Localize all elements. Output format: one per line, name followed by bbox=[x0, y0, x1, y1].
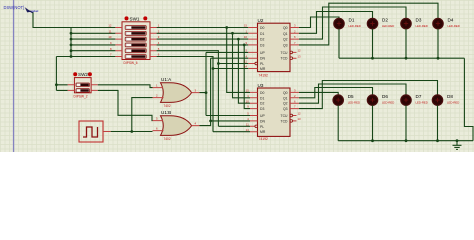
dip switch SW2 bbox=[73, 72, 92, 98]
svg-text:LED-RED: LED-RED bbox=[349, 24, 361, 28]
wire U2.Q0 to LED D1 bbox=[299, 17, 339, 28]
wire SW1 row2 data D1 bbox=[157, 33, 250, 98]
svg-text:D6: D6 bbox=[382, 94, 388, 99]
node DSW(NOT) label bbox=[4, 5, 26, 10]
svg-text:PL: PL bbox=[260, 125, 264, 129]
U2 TCU TCD bubbles bbox=[290, 51, 293, 54]
svg-text:D2: D2 bbox=[260, 38, 264, 42]
svg-text:DN: DN bbox=[260, 119, 265, 123]
svg-text:11: 11 bbox=[244, 60, 247, 64]
svg-text:Q0: Q0 bbox=[283, 26, 288, 30]
svg-text:D2: D2 bbox=[260, 102, 264, 106]
wire U3.Q1 to LED D6 bbox=[299, 88, 373, 98]
svg-text:TCU: TCU bbox=[281, 51, 289, 55]
pulse generator source bbox=[79, 121, 111, 142]
SW1 pins left bbox=[115, 28, 122, 57]
wire U2.Q3 to LED D4 bbox=[299, 3, 438, 45]
svg-text:7402: 7402 bbox=[164, 104, 171, 108]
svg-text:LED-RED: LED-RED bbox=[348, 101, 360, 105]
U2 pins left bbox=[248, 28, 257, 69]
svg-text:DSW(NOT): DSW(NOT) bbox=[4, 5, 26, 10]
ground bbox=[453, 141, 462, 150]
wire U2.Q1 to LED D2 bbox=[299, 12, 373, 34]
svg-text:U1:B: U1:B bbox=[161, 110, 171, 115]
counter U2 bbox=[258, 18, 291, 78]
svg-text:7402: 7402 bbox=[164, 137, 171, 141]
svg-text:Q1: Q1 bbox=[283, 96, 288, 100]
background grid bbox=[0, 0, 474, 152]
svg-text:DIPSW_2: DIPSW_2 bbox=[74, 95, 88, 99]
svg-text:LED-RED: LED-RED bbox=[447, 101, 459, 105]
led D2 bbox=[367, 17, 394, 28]
svg-text:Q2: Q2 bbox=[283, 38, 288, 42]
svg-text:U2: U2 bbox=[258, 18, 264, 23]
dip switch SW1 bbox=[122, 16, 150, 65]
svg-text:D1: D1 bbox=[349, 17, 355, 22]
svg-text:LED-RED: LED-RED bbox=[416, 24, 428, 28]
U3 pins left bbox=[250, 92, 258, 131]
junction dots on rail bbox=[55, 32, 72, 86]
led D8 bbox=[432, 94, 459, 105]
counter U3 bbox=[258, 83, 291, 141]
wire SW1 row1 data D0 bbox=[157, 28, 250, 93]
svg-text:MR: MR bbox=[260, 67, 266, 71]
led D1 bbox=[334, 17, 361, 28]
svg-text:D3: D3 bbox=[416, 17, 422, 22]
U3 TCU TCD bubbles bbox=[290, 114, 293, 117]
svg-text:D7: D7 bbox=[416, 94, 422, 99]
svg-text:LED-RED: LED-RED bbox=[382, 101, 394, 105]
svg-text:D3: D3 bbox=[260, 43, 264, 47]
sheet border line bbox=[13, 0, 14, 152]
wire SW1 row6 to MR pins bbox=[157, 57, 250, 132]
led D7 bbox=[401, 94, 428, 105]
svg-text:Q0: Q0 bbox=[283, 91, 288, 95]
svg-text:14: 14 bbox=[244, 65, 248, 69]
junction pulse node bbox=[130, 130, 133, 133]
wire SW1 row3 data D2 bbox=[157, 39, 250, 103]
U3 PL bubble bbox=[255, 125, 258, 128]
svg-text:Q2: Q2 bbox=[283, 102, 288, 106]
svg-text:LED-RED: LED-RED bbox=[382, 24, 394, 28]
svg-text:D4: D4 bbox=[448, 17, 454, 22]
svg-text:13: 13 bbox=[298, 54, 302, 58]
junctions bottom rail bbox=[371, 139, 458, 142]
wire rail from terminal bbox=[33, 13, 115, 91]
svg-text:D0: D0 bbox=[260, 91, 264, 95]
terminal marker arrow bbox=[25, 7, 39, 13]
U2 pin numbers bbox=[244, 24, 301, 69]
svg-text:10: 10 bbox=[108, 35, 112, 39]
svg-text:U3: U3 bbox=[258, 83, 264, 88]
svg-text:11: 11 bbox=[246, 122, 249, 126]
svg-text:15: 15 bbox=[246, 89, 250, 93]
wire U1:A output to U2.UP and U3.UP bbox=[200, 52, 251, 115]
svg-text:D3: D3 bbox=[260, 107, 264, 111]
SW2 pins bbox=[68, 85, 98, 91]
wire pulse to U1:B input2 and U1:A input2 bbox=[111, 98, 153, 132]
svg-text:LED-RED: LED-RED bbox=[416, 101, 428, 105]
svg-text:D0: D0 bbox=[260, 26, 264, 30]
wire SW2 pin2 to U1:B input1 bbox=[98, 90, 153, 120]
svg-text:TCD: TCD bbox=[281, 119, 289, 123]
wire U1:B output to U2.DN and U3.DN bbox=[200, 58, 251, 125]
SW1 pin numbers bbox=[108, 24, 159, 57]
svg-text:D8: D8 bbox=[447, 94, 453, 99]
U2 PL bubble bbox=[255, 62, 258, 65]
wire U3.Q2 to LED D7 bbox=[299, 84, 406, 103]
SW1 pins right bbox=[150, 28, 157, 57]
led D6 bbox=[367, 94, 394, 105]
svg-text:10: 10 bbox=[244, 35, 248, 39]
svg-text:TCD: TCD bbox=[281, 57, 289, 61]
svg-text:LED-RED: LED-RED bbox=[448, 24, 460, 28]
svg-text:14: 14 bbox=[246, 128, 250, 132]
wire SW1 row4 data D3 bbox=[157, 45, 250, 109]
SW2 sliders bbox=[76, 83, 89, 92]
junction PL bbox=[217, 62, 220, 65]
junction A out bbox=[205, 91, 208, 94]
svg-text:Q1: Q1 bbox=[283, 32, 288, 36]
junction B out bbox=[209, 120, 212, 123]
svg-text:D1: D1 bbox=[260, 32, 264, 36]
svg-text:DN: DN bbox=[260, 57, 265, 61]
svg-text:10: 10 bbox=[246, 99, 250, 103]
svg-text:SW1: SW1 bbox=[130, 16, 140, 21]
U3 pin numbers bbox=[246, 89, 301, 132]
wire U3.Q0 to LED D5 bbox=[299, 92, 338, 95]
svg-text:12: 12 bbox=[108, 24, 112, 28]
wire SW2 pin1 to U1:A input1 bbox=[98, 85, 153, 88]
svg-text:UP: UP bbox=[260, 114, 265, 118]
wire SW1 row5 to PL pins bbox=[157, 51, 250, 127]
svg-text:PL: PL bbox=[260, 62, 264, 66]
svg-text:74192: 74192 bbox=[259, 137, 269, 141]
U3 pins right bbox=[290, 92, 299, 121]
svg-text:12: 12 bbox=[298, 112, 302, 116]
svg-text:UP: UP bbox=[260, 51, 265, 55]
or-gate U1:B bbox=[153, 110, 200, 141]
svg-text:D2: D2 bbox=[382, 17, 388, 22]
or-gate U1:A bbox=[153, 77, 200, 108]
wire top LED cathodes to collector bbox=[339, 29, 473, 141]
svg-text:13: 13 bbox=[298, 117, 302, 121]
svg-text:U1:A: U1:A bbox=[161, 77, 172, 82]
U2 pins right bbox=[290, 28, 299, 59]
svg-text:11: 11 bbox=[109, 29, 112, 33]
SW1 sliders bbox=[125, 26, 146, 59]
svg-text:Q3: Q3 bbox=[283, 43, 288, 47]
svg-text:12: 12 bbox=[298, 49, 302, 53]
svg-text:DIPSW_6: DIPSW_6 bbox=[124, 61, 138, 65]
svg-text:SW2: SW2 bbox=[78, 72, 88, 77]
wire U3.Q3 to LED D8 bbox=[299, 81, 438, 109]
svg-text:D5: D5 bbox=[348, 94, 354, 99]
svg-text:15: 15 bbox=[244, 24, 248, 28]
svg-text:Q3: Q3 bbox=[283, 107, 288, 111]
wire U2.Q2 to LED D3 bbox=[299, 7, 406, 39]
wire bottom LED cathodes to ground rail bbox=[338, 105, 473, 140]
junctions top collector bbox=[371, 57, 439, 60]
led D4 bbox=[433, 17, 460, 28]
svg-text:TCU: TCU bbox=[281, 114, 289, 118]
svg-text:D1: D1 bbox=[260, 96, 264, 100]
led D5 bbox=[333, 94, 360, 105]
svg-text:MR: MR bbox=[260, 130, 266, 134]
led D3 bbox=[401, 17, 428, 28]
junction MR bbox=[212, 67, 215, 70]
svg-text:74192: 74192 bbox=[259, 74, 269, 78]
svg-text:label: label bbox=[32, 9, 39, 13]
